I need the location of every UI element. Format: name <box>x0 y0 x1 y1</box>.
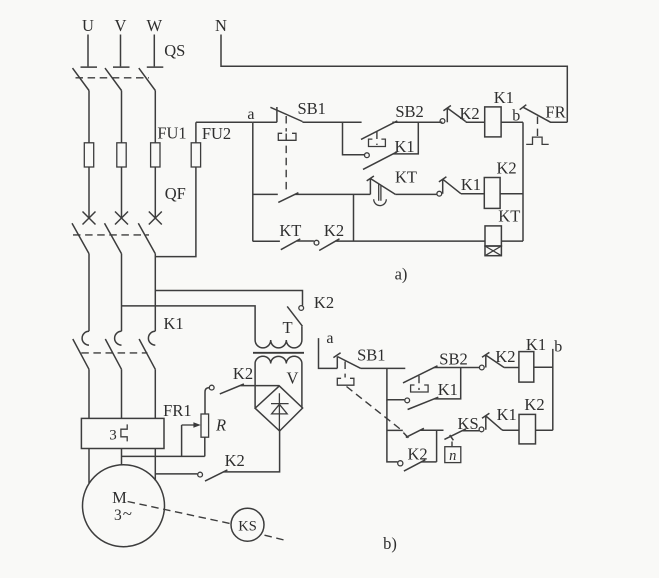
wire row2 KT to K1 contact <box>395 193 436 195</box>
fuse FU2 <box>191 143 200 167</box>
svg-text:K2: K2 <box>314 293 334 312</box>
fuse FU1 pole U <box>84 143 93 167</box>
contact K1 NC (circuit b row2): circle, post, tick, blade <box>479 413 502 432</box>
contact K2 NC (circuit a row1): circle, post, tick, blade <box>440 106 465 124</box>
svg-text:KT: KT <box>395 168 417 187</box>
wire W supply lead <box>153 35 155 67</box>
svg-text:b): b) <box>383 534 397 553</box>
svg-text:FR: FR <box>545 103 565 122</box>
wire N: from N terminal right to FR in circuit a <box>221 35 567 123</box>
thermal contact FR NC: tick and blade <box>520 105 568 123</box>
fuse FU1 pole V <box>117 143 126 167</box>
wire U supply lead <box>87 35 89 67</box>
contact K2 NO (circuit a row3): circle and blade <box>314 239 339 251</box>
wire K1 self-hold branch left drop <box>343 122 365 155</box>
contactor K1 mechanical link (dashed) <box>81 352 147 354</box>
svg-text:R: R <box>215 416 226 435</box>
wire W: QS to fuse FU1 <box>154 91 156 143</box>
wire rail SB1 to SB2 (circuit b) <box>361 367 406 369</box>
svg-text:a: a <box>326 330 333 347</box>
resistor R wiper arrow <box>182 422 201 428</box>
wire K1 self-hold right side up to rail (circuit b) <box>434 368 461 399</box>
contactor K1 pole V: arc contact and blade <box>105 331 121 369</box>
contact K1 self-hold: terminal circle and blade <box>363 152 397 170</box>
wire coil K1 to rail b with stub (circuit b) <box>534 349 553 430</box>
wire R bottom lead <box>204 437 206 456</box>
wire coil K2 to rail b <box>500 193 523 195</box>
fuse FU1 pole W <box>151 143 160 167</box>
svg-text:K1: K1 <box>164 314 184 333</box>
svg-text:FU1: FU1 <box>157 124 186 143</box>
wire W: QF to contactor K1 (taps to FU2 and to K2 feed) <box>154 254 156 332</box>
coil K1 (circuit a) <box>485 107 501 137</box>
wire node a vertical drop <box>252 122 254 241</box>
wire V: FU1 to QF <box>121 167 123 219</box>
coil K2 (circuit a) <box>484 178 500 209</box>
wire common from phase V to R bottom <box>122 455 205 457</box>
pushbutton SB2 NO contact blade <box>361 121 397 139</box>
svg-text:K2: K2 <box>225 451 245 470</box>
speed switch KS circle <box>231 508 264 541</box>
svg-text:V: V <box>115 16 127 35</box>
time relay contact KT delayed: post, tick, blade <box>367 176 396 194</box>
wire V: K1 to FR1 <box>121 369 123 418</box>
pushbutton SB2 actuator dashed link and cap (circuit b) <box>411 376 429 392</box>
svg-text:a): a) <box>395 265 408 284</box>
contact K1 NC (circuit a row2): circle, post, tick, blade <box>437 177 461 196</box>
wire row3 left from node a corner <box>253 240 280 242</box>
svg-text:V: V <box>287 369 299 388</box>
wire U: K1 to FR1 <box>88 369 90 418</box>
coil K2 (circuit b) <box>519 414 536 444</box>
pushbutton SB1 linked NO contact blade (circuit a row2) <box>278 193 298 203</box>
svg-text:K2: K2 <box>497 159 517 178</box>
coil KT (circuit a) with delay flag box <box>485 226 501 256</box>
wire K1 self-hold right side up to rail <box>393 122 418 154</box>
rectifier diode symbol inside bridge <box>271 393 289 431</box>
contact K2 (lower): feed wire from phase W, terminal circle, blade <box>155 470 227 481</box>
rectifier V bridge diamond <box>255 386 303 431</box>
svg-text:W: W <box>147 16 163 35</box>
wire U: FU1 to QF <box>88 167 90 219</box>
wire U: QS to fuse FU1 <box>88 91 90 143</box>
contactor K1 pole W: arc contact and blade <box>139 331 155 369</box>
wire rectifier output down and left to lower K2 <box>223 431 279 472</box>
speed sensing link dashed to n box (circuit b) <box>451 442 453 447</box>
thermal relay FR1 heater symbol <box>121 424 127 441</box>
wire brake row left: from left drop to linked contact (circuit b) <box>387 429 403 431</box>
wire coil K2 to rail b (circuit b) <box>536 429 553 431</box>
breaker QF pole W: X contact and blade <box>138 212 162 254</box>
transformer T secondary winding with leads down to rectifier <box>255 356 302 408</box>
switch QS mechanical link (dashed) <box>76 77 150 79</box>
svg-text:SB2: SB2 <box>439 350 467 369</box>
switch QS pole U: contact bar and blade <box>73 67 98 90</box>
wire U: QF to contactor K1 <box>88 254 90 332</box>
wire K2 self-hold right side up (circuit b) <box>421 461 436 463</box>
wire W: FR1 to motor <box>154 449 156 481</box>
speed reference n box (circuit b) <box>445 447 461 464</box>
wire K2 contact to coil K1 (circuit a) <box>466 120 485 123</box>
breaker QF pole V: X contact and blade <box>105 212 129 254</box>
wire branch down to K2 self-hold (circuit b) <box>436 430 438 462</box>
thermal contact FR actuator dashed and bump symbol <box>526 117 549 145</box>
wire coil KT to rail b corner <box>501 240 523 242</box>
wire row3 to coil KT <box>336 240 485 242</box>
wire control rail FU2 to node a <box>196 121 253 123</box>
svg-text:KT: KT <box>498 207 520 226</box>
wire junction row2 to row3 vertical <box>353 194 355 241</box>
svg-text:K2: K2 <box>233 364 253 383</box>
contact K2 (transformer switch): terminal circle and blade <box>287 306 303 327</box>
wire rail b vertical (circuit a) <box>522 122 524 241</box>
switch QS pole V: contact bar and blade <box>105 67 130 90</box>
wire V: FR1 to motor <box>121 449 123 465</box>
svg-text:K2: K2 <box>524 395 544 414</box>
wire linked contact to KS branch point (circuit b) <box>420 429 444 431</box>
wire row2 K1 to coil K2 <box>461 193 484 195</box>
svg-text:K1: K1 <box>494 88 514 107</box>
svg-text:U: U <box>82 16 94 35</box>
wire FU2 top lead to control rail <box>195 122 197 143</box>
wire node a stub (circuit b) <box>319 338 338 368</box>
pushbutton SB1 NC contact: post and blade <box>253 107 303 122</box>
contact K2 (rectifier to R): lead from R, terminal circle, blade, wire to bridge top <box>205 384 279 414</box>
mechanical link motor to speed switch KS (dashed) <box>128 502 287 541</box>
pushbutton SB1 NC contact (circuit b): post, tick, blade <box>333 353 360 369</box>
svg-text:a: a <box>247 106 254 123</box>
wire rail SB1 to SB2 (circuit a) <box>302 121 361 124</box>
wire K1 self-hold branch left drop (circuit b) <box>387 368 405 399</box>
pushbutton SB1 actuator dashed link and cap <box>278 116 296 193</box>
contactor K1 pole U: arc contact and blade <box>73 331 89 369</box>
transformer T core bar <box>253 352 304 354</box>
svg-text:n: n <box>449 448 456 464</box>
svg-text:KT: KT <box>279 221 301 240</box>
wire U: FR1 to motor <box>88 449 90 484</box>
wire row2 left from node a drop (circuit a) <box>253 193 278 195</box>
wire rail SB2 to K2 contact (circuit a) <box>393 121 442 124</box>
svg-text:3: 3 <box>109 428 117 444</box>
wire V supply lead <box>120 35 122 67</box>
resistor R (rheostat) body <box>201 414 209 437</box>
pushbutton SB1 linked NO brake contact (circuit b): blade and tick <box>403 428 424 438</box>
time relay KT delay symbol (parachute) <box>374 184 387 205</box>
svg-text:SB1: SB1 <box>357 346 385 365</box>
breaker QF pole U: X contact and blade <box>72 212 96 254</box>
svg-text:FR1: FR1 <box>163 401 191 420</box>
wire W: FU1 to QF <box>154 167 156 219</box>
motor M circle <box>83 465 165 547</box>
wire row2 SB1 to KT contact <box>295 193 371 195</box>
wire V: QF to contactor K1 (tap to transformer primary at y306) <box>121 254 123 332</box>
wire FU2 bottom lead tapping phase W <box>155 167 196 257</box>
wire coil K1 to node b <box>501 121 523 123</box>
svg-text:b: b <box>554 339 562 356</box>
svg-text:b: b <box>512 108 520 125</box>
svg-text:FU2: FU2 <box>202 124 231 143</box>
svg-text:T: T <box>283 318 293 337</box>
svg-text:K1: K1 <box>497 405 517 424</box>
pushbutton SB2 NO contact blade (circuit b) <box>403 366 438 383</box>
svg-text:SB2: SB2 <box>395 102 423 121</box>
svg-text:K2: K2 <box>324 221 344 240</box>
wire V: QS to fuse FU1 <box>121 91 123 143</box>
wire W tap to transformer K2 switch <box>155 291 302 306</box>
svg-text:QF: QF <box>165 184 186 203</box>
speed contact KS blade with tick (circuit b) <box>444 429 479 441</box>
wire K2 contact to coil K1 (circuit b) <box>504 367 519 369</box>
wire W: K1 to FR1 <box>154 369 156 418</box>
wire K1 contact to coil K2 (circuit b) <box>502 429 519 432</box>
svg-text:KS: KS <box>238 519 257 535</box>
transformer T primary winding with left lead to phase V <box>122 306 302 348</box>
thermal relay FR1 box <box>81 418 164 448</box>
svg-text:K1: K1 <box>461 175 481 194</box>
wire rail SB2 to K2 contact (circuit b) <box>433 367 479 369</box>
contact KT NO blade (circuit a row3) <box>281 239 314 250</box>
pushbutton SB2 actuator dashed link and cap <box>369 132 386 147</box>
svg-text:QS: QS <box>164 41 185 60</box>
pushbutton SB1 actuator dashed link, cap and diagonal link to brake contact (circuit b) <box>337 362 403 432</box>
svg-text:SB1: SB1 <box>297 99 325 118</box>
breaker QF mechanical link (dashed) <box>73 234 149 236</box>
contact K2 self-hold (circuit b): circle and blade <box>398 460 426 471</box>
wire left drop continues to K2 self-hold row (circuit b) <box>387 400 398 462</box>
contact K1 self-hold (circuit b): terminal circle and blade <box>405 397 438 409</box>
switch QS pole W: contact bar and blade <box>139 67 164 90</box>
contact K2 NC (circuit b row1): circle, post, tick, blade <box>479 352 504 370</box>
svg-text:3~: 3~ <box>114 504 132 524</box>
coil K1 (circuit b) <box>519 352 534 383</box>
svg-text:N: N <box>215 16 227 35</box>
svg-text:K1: K1 <box>438 380 458 399</box>
wire wiper down to common <box>181 425 183 456</box>
